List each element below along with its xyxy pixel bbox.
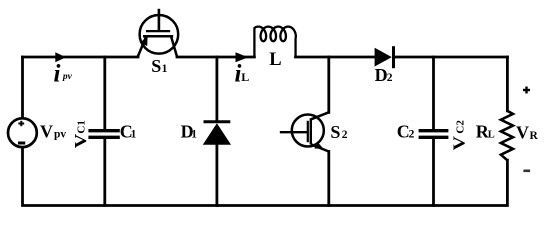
svg-text:2: 2 xyxy=(409,129,415,141)
svg-text:V: V xyxy=(450,135,468,150)
svg-text:i: i xyxy=(54,61,61,88)
svg-text:2: 2 xyxy=(387,72,393,84)
svg-text:R: R xyxy=(530,130,539,142)
svg-text:V: V xyxy=(516,123,529,143)
svg-text:1: 1 xyxy=(131,128,137,140)
svg-text:2: 2 xyxy=(342,129,348,141)
svg-text:D: D xyxy=(375,65,388,85)
svg-text:S: S xyxy=(330,122,340,142)
svg-text:L: L xyxy=(241,70,249,84)
svg-text:C2: C2 xyxy=(454,120,466,134)
svg-text:1: 1 xyxy=(191,129,197,141)
svg-text:L: L xyxy=(488,130,495,141)
svg-text:pv: pv xyxy=(54,128,66,140)
svg-text:S: S xyxy=(151,56,161,76)
svg-text:V: V xyxy=(71,133,89,148)
svg-text:C1: C1 xyxy=(76,120,88,133)
svg-text:pv: pv xyxy=(62,72,73,82)
svg-text:1: 1 xyxy=(162,63,168,75)
svg-text:L: L xyxy=(269,50,281,70)
svg-text:V: V xyxy=(40,122,53,142)
